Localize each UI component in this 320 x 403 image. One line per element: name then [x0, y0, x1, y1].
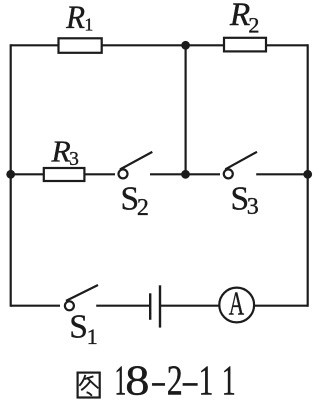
wire bottom rail ammeter-to-right segment	[255, 305, 308, 307]
node top junction	[181, 41, 190, 50]
wire bottom rail S1-to-battery segment	[96, 305, 149, 307]
svg-text:1: 1	[84, 15, 93, 35]
svg-text:2: 2	[167, 358, 183, 403]
node right junction	[303, 170, 312, 179]
svg-text:3: 3	[247, 194, 259, 220]
svg-text:–: –	[152, 358, 165, 403]
svg-text:2: 2	[248, 13, 259, 38]
label S3	[231, 180, 259, 220]
svg-text:S: S	[69, 309, 88, 346]
svg-text:A: A	[229, 286, 245, 323]
ammeter A	[219, 286, 254, 323]
wire left rail	[10, 44, 12, 307]
svg-text:1: 1	[87, 324, 98, 349]
resistor R3	[44, 134, 85, 181]
resistor R2	[224, 0, 266, 51]
label S2	[121, 180, 149, 221]
svg-text:1: 1	[222, 358, 236, 403]
svg-text:8: 8	[125, 358, 149, 403]
wire middle rail left segment	[11, 173, 115, 175]
svg-text:3: 3	[69, 149, 79, 170]
wire middle rail S2-to-node segment	[150, 173, 220, 175]
switch S3	[224, 152, 257, 179]
svg-text:–: –	[182, 358, 197, 403]
switch S1	[65, 285, 98, 310]
battery cell	[150, 285, 160, 327]
svg-text:R: R	[50, 134, 70, 168]
caption character 图	[78, 373, 100, 398]
wire right rail	[307, 44, 309, 307]
wire bottom rail left segment	[11, 305, 60, 307]
caption text 18-2-11	[115, 358, 236, 403]
resistor R1	[59, 0, 102, 53]
svg-text:1: 1	[199, 358, 214, 403]
wire middle vertical	[185, 45, 187, 174]
switch S2	[119, 152, 153, 179]
node left junction	[6, 170, 15, 179]
svg-text:2: 2	[137, 195, 149, 221]
label S1	[69, 309, 98, 350]
svg-text:R: R	[229, 0, 250, 33]
node middle junction	[181, 170, 190, 179]
wire top rail	[11, 44, 308, 46]
wire bottom rail battery-to-ammeter segment	[161, 305, 219, 307]
svg-text:R: R	[65, 0, 85, 35]
wire middle rail S3-to-right segment	[256, 173, 308, 175]
